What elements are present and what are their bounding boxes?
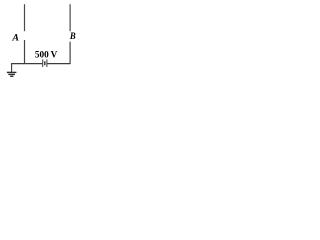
wire from plate A down — [24, 40, 26, 64]
ground bar 2 — [8, 73, 15, 75]
ground bar 3 — [10, 75, 13, 77]
wire battery to right corner — [47, 63, 70, 65]
svg-text:500 V: 500 V — [35, 51, 58, 61]
ground bar 1 — [7, 71, 17, 73]
plate A (left capacitor plate) — [24, 4, 26, 31]
svg-text:B: B — [69, 31, 76, 41]
plate B (right capacitor plate) — [69, 4, 71, 31]
wire bottom horizontal, ground corner to battery left terminal — [11, 63, 42, 65]
wire from plate B down — [69, 42, 71, 64]
ground stem — [11, 64, 13, 73]
battery BT1 positive plate right — [46, 59, 48, 67]
battery BT1 positive plate left — [42, 59, 44, 67]
svg-text:A: A — [11, 33, 19, 43]
battery BT1 negative plate middle (short thick) — [44, 61, 46, 65]
